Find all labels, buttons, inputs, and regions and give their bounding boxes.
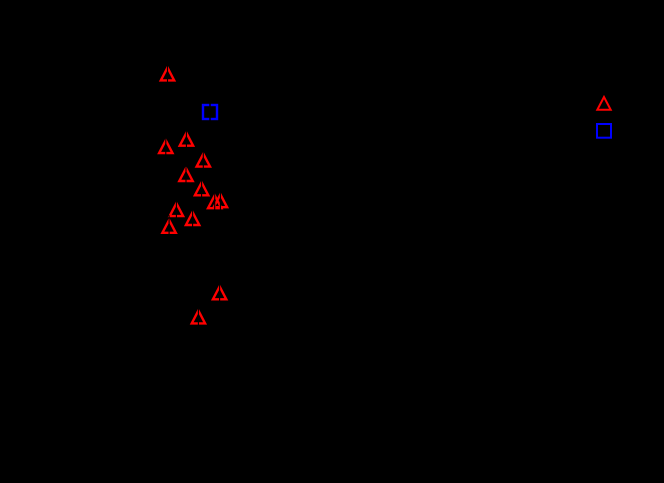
error bar through T6 (black vertical line)	[201, 178, 202, 200]
error bar through T2 (black vertical line)	[165, 136, 166, 158]
legend key: red open triangle marker	[597, 97, 610, 110]
data point T7: red open triangle marker	[208, 195, 221, 208]
error bar through T1 (black vertical line)	[167, 63, 168, 85]
data point T9: red open triangle marker	[170, 203, 183, 216]
error bar through T7 (black vertical line)	[214, 191, 215, 213]
data point T8: red open triangle marker	[214, 194, 227, 207]
legend key: blue open square marker	[597, 124, 611, 138]
error bar through T4 (black vertical line)	[203, 149, 204, 171]
error bar through T5 (black vertical line)	[185, 163, 186, 185]
error bar through T3 (black vertical line)	[186, 128, 187, 150]
data point T11: red open triangle marker	[162, 220, 175, 233]
data point T12: red open triangle marker	[213, 287, 226, 300]
error bar through S1 (black vertical line)	[209, 101, 210, 123]
error bar through T10 (black vertical line)	[192, 207, 193, 229]
data point T6: red open triangle marker	[195, 183, 208, 196]
error bar through T11 (black vertical line)	[169, 215, 170, 237]
error bar through T13 (black vertical line)	[198, 306, 199, 328]
data point T5: red open triangle marker	[179, 168, 192, 181]
data point S1: blue open square marker	[203, 105, 217, 119]
data point T1: red open triangle marker	[161, 68, 174, 81]
error bar through T8 (black vertical line)	[220, 190, 221, 212]
data point T10: red open triangle marker	[186, 212, 199, 225]
data point T2: red open triangle marker	[159, 140, 172, 153]
error bar through T9 (black vertical line)	[176, 199, 177, 221]
data point T13: red open triangle marker	[192, 311, 205, 324]
data point T4: red open triangle marker	[197, 154, 210, 167]
error bar through T12 (black vertical line)	[219, 282, 220, 304]
data point T3: red open triangle marker	[180, 133, 193, 146]
